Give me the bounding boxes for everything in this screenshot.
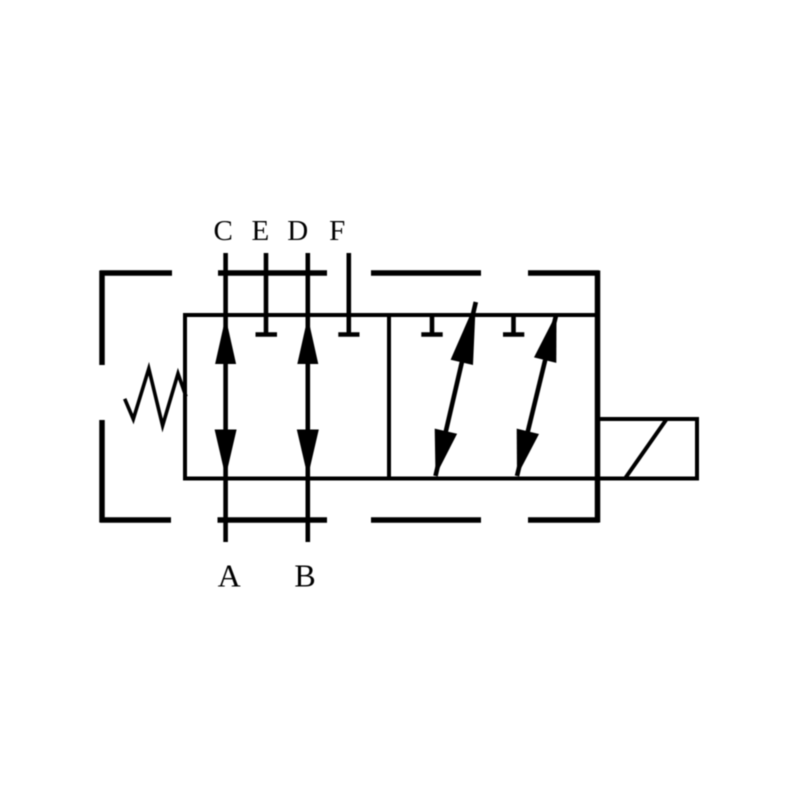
flow path arrow D-B (double-headed, left cell) (297, 315, 319, 479)
blocked port E (T symbol) (256, 315, 278, 335)
port line C (223, 253, 228, 315)
dashed enclosure bottom edge (100, 517, 599, 523)
port line F (346, 253, 351, 315)
label C (214, 215, 233, 247)
svg-text:D: D (287, 215, 308, 247)
spring (125, 369, 186, 426)
svg-text:B: B (294, 557, 315, 593)
label B (294, 557, 315, 593)
label F (329, 215, 345, 247)
label E (252, 215, 270, 247)
port line E (264, 253, 269, 315)
svg-text:A: A (218, 557, 241, 593)
dashed enclosure top edge (100, 270, 599, 276)
dashed enclosure right edge (595, 271, 601, 523)
svg-text:C: C (214, 215, 233, 247)
solenoid actuator box (595, 419, 699, 479)
dashed enclosure left edge (99, 271, 105, 523)
diagonal flow arrow 2 (double-headed, right cell) (517, 314, 557, 477)
valve position box 2 (right cell) (389, 315, 598, 479)
blocked port T1 in right cell (T symbol) (421, 315, 442, 335)
solenoid diagonal stroke (625, 420, 666, 479)
blocked port F (T symbol) (338, 315, 359, 335)
label A (218, 557, 241, 593)
port line D (305, 253, 310, 315)
blocked port T2 in right cell (T symbol) (503, 315, 524, 335)
label D (287, 215, 308, 247)
port line B (305, 479, 310, 543)
flow path arrow C-A (double-headed, left cell) (215, 315, 237, 479)
svg-text:E: E (252, 215, 270, 247)
svg-text:F: F (329, 215, 345, 247)
valve position box 1 (left cell) (185, 315, 389, 479)
diagonal flow arrow 1 (double-headed, right cell) (435, 302, 476, 476)
port line A (223, 479, 228, 543)
